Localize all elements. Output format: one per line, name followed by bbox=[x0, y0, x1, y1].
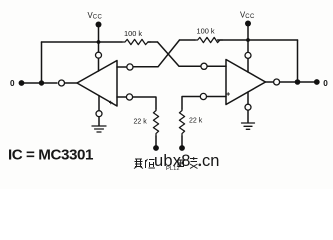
wire: U1b output stub bbox=[266, 81, 274, 83]
resistor R3 22k (left vertical) bbox=[153, 109, 158, 136]
svg-text:0: 0 bbox=[323, 79, 328, 88]
svg-text:22 k: 22 k bbox=[189, 118, 203, 125]
plus mark inside U1a bbox=[109, 101, 112, 104]
resistor R1 100k (left) bbox=[122, 39, 151, 44]
wire: right feedback vertical bbox=[297, 40, 299, 82]
terminal: right output bbox=[314, 79, 320, 85]
op-amp U1a (left, mirrored triangle) bbox=[77, 61, 117, 107]
pin bubble: U1a ground pin bbox=[96, 111, 102, 117]
pin bubble: U1a output bbox=[59, 80, 65, 86]
power VCC1 dot bbox=[96, 22, 102, 28]
svg-text:100 k: 100 k bbox=[124, 29, 142, 38]
wire: U1b upper input stub bbox=[207, 65, 226, 67]
pin bubble: U1b bias bbox=[245, 52, 251, 58]
terminal: left output bbox=[19, 80, 25, 86]
svg-text:IC = MC3301: IC = MC3301 bbox=[8, 147, 94, 164]
wire: left bias into U1a bbox=[98, 58, 100, 71]
wire: left input horizontal bbox=[24, 82, 57, 84]
svg-text:VCC: VCC bbox=[240, 11, 255, 21]
wire: U1a upper input stub bbox=[117, 66, 127, 68]
wire: top-right horizontal from cross to right 100k bbox=[180, 39, 196, 41]
pin bubble: U1a lower input bbox=[126, 94, 132, 100]
wire: U1b to ground lower bbox=[247, 110, 249, 122]
junction: VCC1 on top wire bbox=[97, 40, 101, 44]
wire: cross diagonal B (right top to left upper input) bbox=[133, 40, 180, 67]
wire: U1b lower input to 22k bbox=[182, 97, 200, 110]
svg-text:100 k: 100 k bbox=[197, 27, 215, 36]
input bubbles (open circles) bbox=[59, 52, 280, 117]
power VCC2 dot bbox=[245, 21, 251, 27]
wire: left 22k to reset terminal bbox=[155, 136, 157, 146]
junction: VCC2 on top wire bbox=[246, 38, 250, 42]
wire: top-right after resistor to right corner bbox=[218, 39, 298, 41]
ground GND2 (right) bbox=[242, 123, 255, 129]
pin bubble: U1a upper input bbox=[127, 64, 133, 70]
pin bubble: U1b upper input bbox=[201, 63, 207, 69]
svg-text:cn: cn bbox=[202, 152, 219, 170]
junction: right feedback node bbox=[295, 79, 301, 85]
label 触发 (trigger, drawn glyphs) bbox=[178, 157, 198, 169]
svg-text:22 k: 22 k bbox=[134, 119, 148, 126]
label 复位 (reset, drawn glyphs) bbox=[134, 159, 155, 169]
op-amp U1b (right triangle) bbox=[226, 60, 266, 105]
resistor R2 100k (right) bbox=[195, 37, 223, 42]
resistor R4 22k (right vertical) bbox=[179, 109, 184, 136]
wire: cross diagonal A (left top to right lower input) bbox=[158, 42, 202, 66]
wire: left feedback vertical bbox=[41, 42, 43, 83]
pin bubble: U1b output bbox=[274, 79, 280, 85]
svg-text:VCC: VCC bbox=[88, 11, 103, 21]
terminal: trigger (触发) bbox=[179, 145, 185, 151]
junction: left feedback node bbox=[39, 80, 44, 85]
pin bubble: U1a bias bbox=[96, 52, 102, 58]
wire: right output horizontal bbox=[280, 81, 315, 83]
ground GND1 (left) bbox=[92, 126, 106, 132]
plus mark inside U1b bbox=[227, 92, 230, 95]
wire: right VCC drop bbox=[247, 26, 249, 52]
wire: U1a to ground upper bbox=[98, 96, 100, 111]
pin bubble: U1b lower input bbox=[200, 93, 206, 99]
wire: U1b lower input stub bbox=[207, 96, 227, 98]
wire: left VCC drop bbox=[98, 27, 100, 52]
svg-text:0: 0 bbox=[10, 79, 15, 88]
wire: U1a output stub bbox=[65, 82, 77, 84]
wire: U1b to ground upper bbox=[247, 92, 249, 104]
wire: top-left after resistor to cross bbox=[148, 41, 158, 43]
wire: U1a to ground lower bbox=[98, 117, 100, 126]
wire: top-left horizontal to left 100k bbox=[42, 41, 123, 43]
wire: U1a lower input stub bbox=[117, 96, 126, 98]
wire: right bias into U1b bbox=[247, 58, 249, 72]
wire: right 22k to trigger terminal bbox=[181, 136, 183, 146]
pin bubble: U1b ground pin bbox=[245, 104, 251, 110]
svg-text:PL12: PL12 bbox=[166, 166, 180, 172]
wire: U1a lower input to 22k bbox=[133, 97, 156, 109]
terminal: reset (复位) bbox=[153, 145, 159, 151]
watermark dot bbox=[199, 164, 202, 167]
